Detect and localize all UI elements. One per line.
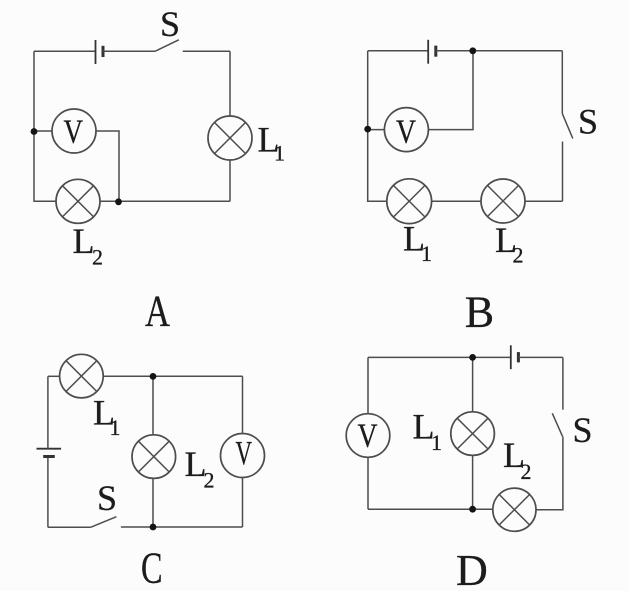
svg-text:V: V: [236, 435, 253, 472]
lamp L1 (B): [387, 179, 432, 224]
wire A right side upper (corner down to lamp L1): [229, 51, 231, 116]
lamp L2 (C): [132, 435, 176, 479]
battery D short plate: [517, 352, 520, 362]
battery A short plate: [102, 46, 105, 57]
wire B left side upper: [367, 51, 369, 129]
node C top junction: [150, 373, 157, 380]
wire A switch to top-right corner: [183, 50, 230, 52]
battery A long plate: [95, 40, 97, 64]
wire C middle branch lower (L2 to bottom junction): [152, 478, 154, 527]
wire D right side upper (corner to switch): [562, 357, 564, 409]
lamp L1 (A): [208, 116, 252, 160]
node B top junction: [469, 47, 476, 54]
wire B between lamps: [432, 200, 481, 202]
battery B long plate: [427, 40, 429, 64]
svg-text:S: S: [160, 4, 180, 44]
wire D top-left horizontal (corner to junction): [368, 356, 473, 358]
wire C bottom-left segment: [48, 526, 91, 528]
wire D battery to top-right corner: [518, 356, 563, 358]
lamp L1 (D): [451, 412, 495, 456]
wire A node to voltmeter left lead: [34, 130, 52, 132]
wire C left side lower (battery to corner): [47, 457, 49, 528]
wire A battery to switch pivot: [103, 50, 155, 52]
battery C short plate: [43, 455, 55, 458]
svg-text:V: V: [358, 417, 378, 454]
wire B bottom-left corner segment: [368, 129, 387, 201]
wire B right side lower (switch to bottom corner): [562, 142, 564, 202]
wire D junction to battery: [473, 356, 511, 358]
wire D right side lower (switch to bottom corner): [536, 437, 563, 510]
svg-text:1: 1: [421, 241, 432, 266]
wire B battery to top junction and corner: [436, 50, 563, 52]
wire A right side lower (L1 to bottom-right corner): [229, 160, 231, 201]
voltmeter V (D): [346, 414, 390, 458]
wire B voltmeter right lead up to top junction: [428, 51, 473, 130]
lamp L2 (A): [56, 179, 100, 223]
wire D left side lower (corner to voltmeter): [367, 457, 369, 509]
svg-text:1: 1: [431, 430, 442, 455]
node C bottom junction: [150, 524, 157, 531]
switch S lever (A): [155, 40, 179, 52]
lamp L2 (D): [493, 488, 536, 531]
svg-text:B: B: [465, 288, 494, 337]
svg-text:2: 2: [92, 245, 103, 270]
svg-text:D: D: [456, 546, 488, 591]
wire C top-left stub (corner to lamp L1): [48, 375, 60, 377]
wire A left side upper: [33, 51, 35, 131]
svg-text:2: 2: [204, 468, 215, 493]
node A bottom junction: [115, 198, 122, 205]
wire B right side upper (corner to switch): [561, 51, 563, 114]
svg-text:2: 2: [521, 459, 532, 484]
wire C right side lower (voltmeter to bottom corner): [242, 478, 244, 528]
wire A junction to lamp L2: [100, 200, 119, 202]
wire C middle branch upper (junction to lamp L2): [152, 376, 154, 435]
wire D middle branch upper (junction to lamp L1): [472, 357, 474, 412]
node D bottom junction: [469, 506, 476, 513]
svg-text:C: C: [141, 544, 163, 591]
wire D left side upper (voltmeter to top corner): [367, 357, 369, 413]
wire D bottom (junction to lamp L2): [473, 508, 493, 510]
svg-text:1: 1: [274, 141, 285, 166]
wire A bottom (corner to junction): [119, 200, 231, 202]
svg-text:2: 2: [513, 243, 524, 268]
node B left junction: [364, 126, 371, 133]
svg-text:V: V: [64, 113, 84, 150]
svg-text:S: S: [573, 410, 593, 450]
wire A bottom-left corner segment: [34, 132, 56, 202]
wire B node to voltmeter left lead: [368, 129, 385, 131]
wire C bottom (corner to junction): [153, 526, 243, 528]
battery D long plate: [510, 345, 512, 369]
lamp L1 (C): [60, 354, 104, 398]
wire C left side upper (battery to top corner): [47, 376, 49, 448]
lamp L2 (B): [481, 179, 525, 223]
svg-text:1: 1: [110, 415, 121, 440]
wire C top (L1 to junction to corner): [103, 375, 242, 377]
wire C junction to switch: [121, 526, 153, 528]
svg-text:V: V: [396, 113, 416, 150]
wire C right side upper (corner to voltmeter): [242, 376, 244, 433]
wire B bottom right segment: [525, 200, 563, 202]
wire D bottom-left (junction to corner): [368, 508, 473, 510]
switch S lever (C): [91, 517, 117, 528]
wire A voltmeter right lead: [96, 131, 119, 201]
switch S lever (B): [562, 114, 573, 139]
battery C long plate: [37, 448, 62, 450]
switch S lever (D): [552, 413, 562, 436]
wire A top-left horizontal (corner to battery): [34, 50, 96, 52]
svg-text:S: S: [578, 101, 598, 141]
voltmeter V (A): [52, 109, 96, 153]
wire B top-left horizontal (corner to battery): [368, 50, 429, 52]
node D top junction: [469, 354, 476, 361]
wire D middle branch lower (L1 to bottom junction): [472, 455, 474, 509]
battery B short plate: [434, 46, 437, 57]
svg-text:S: S: [97, 478, 117, 518]
svg-text:A: A: [145, 286, 170, 335]
node A left junction: [31, 128, 38, 135]
voltmeter V (C): [221, 434, 265, 478]
voltmeter V (B): [384, 108, 428, 152]
